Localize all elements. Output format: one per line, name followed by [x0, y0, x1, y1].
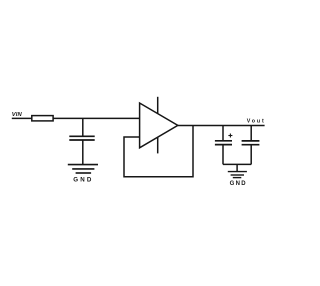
capacitor C2 [215, 141, 232, 145]
svg-text:VIN: VIN [12, 112, 23, 118]
wire output [178, 125, 265, 127]
wire input left [12, 117, 33, 119]
polarity plus C2 [228, 134, 232, 138]
wire C2 bottom [222, 145, 224, 165]
capacitor C3 [242, 141, 260, 145]
wire ground bus [223, 163, 251, 165]
wire C1 branch [82, 118, 84, 136]
wire ground stem [236, 164, 238, 171]
resistor R1 [32, 116, 53, 121]
wire C3 branch top [250, 126, 252, 141]
wire C1 to ground [82, 140, 84, 164]
capacitor C1 [69, 136, 94, 140]
op-amp U1 [140, 103, 178, 148]
wire C2 branch top [222, 126, 224, 141]
wire feedback loop [124, 126, 193, 177]
pin top U1 [157, 97, 159, 114]
pin bottom U1 [157, 137, 159, 153]
wire C3 bottom [250, 145, 252, 165]
svg-text:GND: GND [73, 176, 93, 183]
ground GND2 [228, 172, 247, 178]
svg-text:Vout: Vout [247, 119, 266, 125]
svg-text:GND: GND [230, 181, 247, 187]
wire input right [53, 117, 140, 119]
ground GND1 [68, 165, 98, 173]
